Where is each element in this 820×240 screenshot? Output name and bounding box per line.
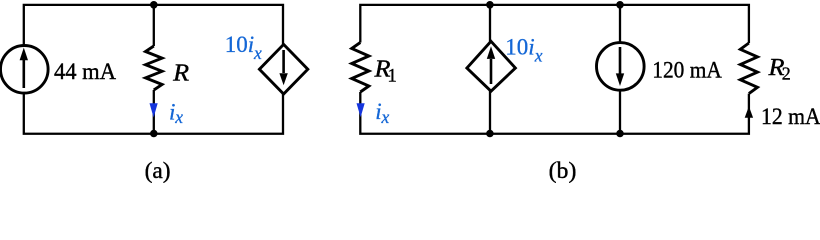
svg-text:1: 1: [387, 66, 397, 87]
svg-text:x: x: [253, 43, 262, 63]
wire: circuit (a) middle branch above resistor R: [153, 4, 155, 46]
wire: circuit (a) bottom wire with left/right corners: [24, 92, 283, 133]
node: junction dot bottom of 120 mA branch: [616, 130, 624, 138]
svg-text:(a): (a): [145, 158, 171, 183]
svg-text:(b): (b): [549, 158, 577, 183]
dependent source 10ix in (a) (diamond symbol): [259, 44, 307, 94]
svg-text:12 mA: 12 mA: [761, 104, 820, 129]
wire: circuit (b) dependent source branch upper: [489, 4, 491, 42]
resistor R1 (zigzag): [352, 43, 369, 93]
current source 120 mA (circle symbol): [597, 43, 645, 91]
wire: circuit (b) 120 mA source branch lower: [619, 89, 621, 134]
svg-text:10i: 10i: [225, 32, 254, 57]
node: junction dot top of 120 mA branch: [616, 1, 624, 9]
svg-text:x: x: [534, 46, 543, 66]
svg-text:10i: 10i: [505, 34, 534, 59]
node: junction dot bottom of dependent source branch (b): [486, 130, 494, 138]
node: junction dot top of dependent source branch (b): [486, 1, 494, 9]
current source I1 44 mA (circle symbol): [1, 46, 49, 94]
svg-text:x: x: [174, 107, 183, 127]
arrow: black current arrow 12 mA on R2 branch: [745, 106, 753, 118]
node: junction dot top of R branch: [150, 1, 158, 9]
resistor R (zigzag): [146, 46, 163, 90]
svg-text:2: 2: [782, 63, 791, 83]
wire: circuit (b) bottom wire with left/right corners: [360, 92, 749, 134]
svg-text:44 mA: 44 mA: [54, 59, 116, 84]
wire: circuit (b) dependent source branch lower: [489, 91, 491, 135]
wire: circuit (a) middle branch below resistor R: [153, 90, 155, 135]
svg-text:R: R: [172, 60, 189, 86]
wire: circuit (a) top wire with left/right corners: [24, 5, 283, 47]
svg-text:x: x: [381, 107, 390, 127]
svg-text:120 mA: 120 mA: [652, 57, 722, 82]
wire: circuit (b) top wire with left/right corners: [360, 5, 749, 43]
node: junction dot bottom of R branch: [150, 130, 158, 138]
arrow: blue current arrow i_x on resistor R branch: [150, 103, 158, 117]
arrow: blue current arrow i_x on R1 branch: [357, 103, 365, 117]
wire: circuit (b) 120 mA source branch upper: [619, 4, 621, 44]
resistor R2 (zigzag): [740, 43, 757, 94]
dependent source 10ix in (b) (diamond symbol): [467, 41, 516, 91]
